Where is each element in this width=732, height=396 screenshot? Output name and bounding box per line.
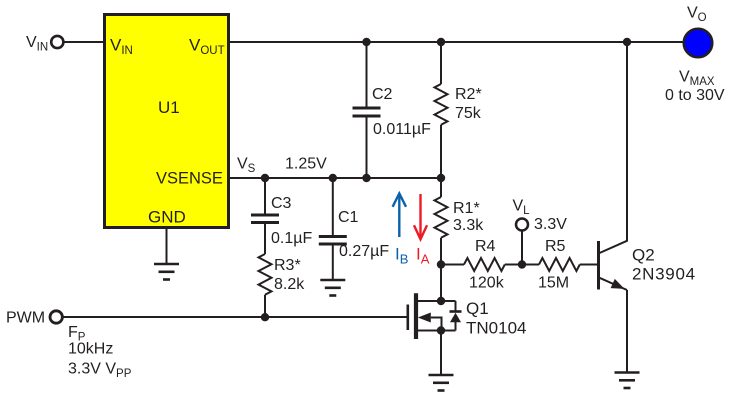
resistor R3	[259, 254, 272, 318]
wire Q1 source	[440, 331, 442, 376]
body diode Q1	[450, 301, 462, 331]
svg-text:15M: 15M	[538, 275, 569, 292]
svg-text:2N3904: 2N3904	[632, 265, 696, 284]
svg-text:0.011µF: 0.011µF	[373, 121, 431, 138]
svg-text:120k: 120k	[469, 275, 505, 292]
node Q1 source	[437, 326, 445, 334]
capacitor C1	[319, 178, 347, 280]
current arrow IA	[414, 194, 427, 239]
svg-text:Q1: Q1	[466, 299, 489, 318]
node VOUT-C2	[362, 38, 370, 46]
node VSENSE-C3	[261, 174, 269, 182]
transistor Q1 MOSFET	[408, 293, 456, 339]
svg-text:3.3V VPP: 3.3V VPP	[68, 361, 132, 381]
node VSENSE-R1	[437, 174, 445, 182]
svg-text:VIN: VIN	[26, 34, 48, 54]
capacitor C3	[251, 178, 279, 254]
svg-text:TN0104: TN0104	[466, 319, 526, 338]
wire VIN to U1	[64, 41, 104, 43]
wire VSENSE rail	[229, 177, 442, 179]
ground Q2 emitter	[615, 373, 640, 389]
svg-text:PWM: PWM	[6, 310, 45, 327]
svg-text:C1: C1	[338, 209, 359, 226]
regulator U1 body	[105, 15, 229, 228]
resistor R5	[539, 258, 580, 271]
ground under C1	[320, 280, 345, 296]
node VSENSE-C2	[362, 174, 370, 182]
svg-text:3.3V: 3.3V	[534, 216, 567, 233]
svg-text:10kHz: 10kHz	[68, 341, 113, 358]
svg-text:VSENSE: VSENSE	[156, 169, 223, 187]
svg-text:75k: 75k	[455, 105, 482, 122]
svg-text:R2*: R2*	[455, 86, 482, 103]
svg-text:C3: C3	[271, 195, 292, 212]
svg-text:VMAX: VMAX	[679, 69, 715, 89]
svg-text:Q2: Q2	[632, 246, 655, 265]
svg-text:VO: VO	[687, 5, 707, 25]
svg-text:3.3k: 3.3k	[453, 217, 484, 234]
svg-text:R1*: R1*	[453, 200, 480, 217]
svg-text:0.1µF: 0.1µF	[271, 230, 312, 247]
svg-text:R3*: R3*	[274, 257, 301, 274]
node VOUT-R2	[437, 38, 445, 46]
node VL-R5	[518, 260, 526, 268]
wire Q2 collector	[626, 42, 628, 242]
svg-text:8.2k: 8.2k	[274, 276, 305, 293]
svg-text:1.25V: 1.25V	[285, 156, 327, 173]
resistor R1	[435, 178, 448, 265]
terminal VL	[516, 219, 528, 265]
wire Q1 drain	[440, 265, 442, 302]
svg-text:IA: IA	[416, 244, 430, 266]
svg-text:R5: R5	[545, 238, 566, 255]
ground Q1 source	[429, 375, 454, 391]
wire VOUT top rail	[229, 41, 683, 43]
ground under U1	[154, 228, 179, 280]
svg-text:0.27µF: 0.27µF	[339, 243, 389, 260]
terminal VIN	[51, 36, 63, 48]
svg-text:IB: IB	[395, 244, 408, 266]
node VOUT-Q2	[623, 38, 631, 46]
node PWM-R3	[261, 313, 269, 321]
capacitor C2	[353, 42, 381, 178]
svg-text:U1: U1	[158, 98, 180, 117]
wire R4 to R5	[505, 264, 539, 266]
wire Q2 emitter	[626, 290, 628, 373]
node Q1 drain	[437, 297, 445, 305]
transistor Q2	[599, 241, 628, 290]
svg-text:VS: VS	[237, 156, 256, 176]
node R1-R4	[437, 260, 445, 268]
svg-text:VL: VL	[513, 198, 531, 218]
wire R4 rail	[441, 264, 464, 266]
current arrow IB	[393, 193, 406, 237]
svg-text:C2: C2	[372, 86, 393, 103]
svg-text:0 to 30V: 0 to 30V	[665, 87, 725, 104]
terminal VO	[684, 29, 713, 58]
resistor R4	[464, 258, 505, 271]
wire PWM rail	[63, 316, 407, 318]
wire R5 to Q2 base	[580, 264, 598, 266]
node VSENSE-C1	[329, 174, 337, 182]
svg-text:GND: GND	[148, 208, 186, 227]
resistor R2	[435, 42, 448, 178]
svg-text:R4: R4	[475, 238, 496, 255]
terminal PWM	[50, 311, 62, 323]
